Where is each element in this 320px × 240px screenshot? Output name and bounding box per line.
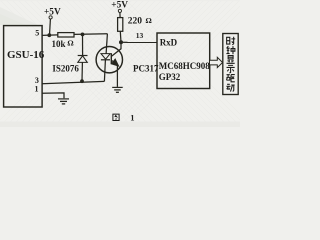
wire pin1	[42, 93, 64, 98]
svg-text:1: 1	[35, 85, 39, 94]
svg-text:13: 13	[136, 31, 144, 40]
LED triangle (pointing down)	[101, 54, 110, 60]
node collector/RxD junction	[119, 40, 123, 44]
opto-coupler U2 PC317 circle	[96, 47, 122, 73]
wire terminal to resistor	[119, 13, 121, 18]
box clock display driver	[223, 34, 238, 95]
svg-text:PC317: PC317	[133, 64, 159, 74]
paper background	[0, 0, 240, 127]
ground (emitter)	[112, 87, 123, 92]
paper hatch texture	[0, 0, 262, 130]
hanzi zhong1 (clock)	[226, 46, 234, 54]
LED cathode line down to pin3 wire corner	[104, 60, 105, 82]
hanzi dong4 (move)	[226, 84, 234, 91]
box U1 GSU-16	[4, 26, 43, 107]
wire diode cathode to pin3 wire	[81, 62, 83, 81]
svg-text:IS2076: IS2076	[52, 63, 79, 73]
hanzi xian3 (display)	[227, 56, 235, 64]
diode D1 IS2076 (cathode up)	[78, 56, 88, 63]
LED cathode bar	[101, 59, 110, 61]
wire resistor to LED corner	[74, 33, 107, 36]
svg-text:MC68HC908: MC68HC908	[159, 61, 210, 71]
caption hanzi tu2 (figure)	[113, 114, 119, 120]
svg-text:GP32: GP32	[159, 72, 181, 82]
LED anode drop into circle	[106, 34, 107, 54]
resistor R2 220 body (vertical)	[118, 18, 123, 32]
svg-text:Ω: Ω	[68, 38, 74, 47]
supply terminal circle (left)	[49, 16, 52, 19]
phototransistor collector line	[111, 42, 121, 56]
svg-text:1: 1	[130, 113, 134, 123]
block arrow MCU to display	[210, 57, 223, 67]
wire resistor to node	[119, 31, 122, 42]
phototransistor base bar	[110, 53, 112, 64]
phototransistor emitter with arrow	[111, 60, 116, 64]
ground (pin1)	[58, 99, 69, 104]
svg-text:5: 5	[35, 28, 39, 37]
node diode top junction	[81, 33, 85, 37]
node junction at pin5 wire	[47, 33, 51, 37]
box U3 MC68HC908 GP32	[157, 33, 210, 89]
resistor R1 10k body	[58, 33, 74, 37]
svg-text:RxD: RxD	[160, 38, 178, 48]
svg-text:+5V: +5V	[44, 8, 61, 18]
wire pin3 to LED cathode corner	[42, 81, 105, 83]
svg-text:GSU-16: GSU-16	[7, 49, 45, 61]
wire pin5 to resistor	[42, 34, 58, 37]
svg-text:Ω: Ω	[146, 16, 152, 25]
node diode bottom junction	[80, 79, 84, 83]
wire diode anode drop	[82, 34, 84, 55]
supply terminal circle (right)	[118, 9, 121, 12]
hanzi shi2 (time)	[227, 37, 236, 45]
wire node to MCU RxD pin	[121, 41, 157, 43]
svg-text:10k: 10k	[52, 39, 66, 49]
emitter down to ground	[116, 65, 118, 87]
svg-text:220: 220	[128, 17, 143, 27]
hanzi qu1 (drive-left)	[226, 75, 234, 82]
scan shading bottom	[0, 122, 240, 128]
hanzi shi4 (show)	[227, 65, 235, 73]
wire from +5V terminal down to node	[49, 19, 52, 35]
